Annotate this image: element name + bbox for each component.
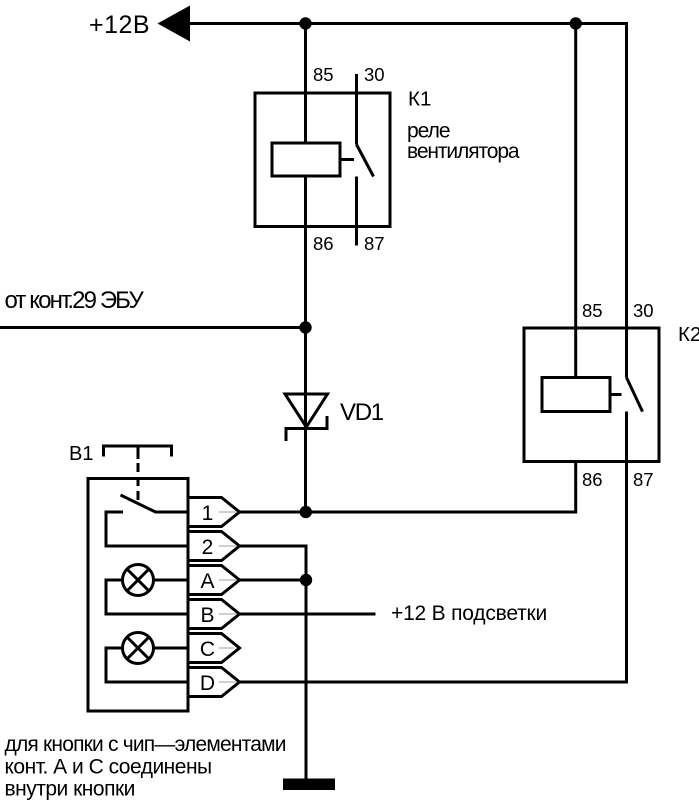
- wire rail to K2 pin 85 (coil top): [574, 24, 577, 378]
- lamp HL1 wire pin A: [154, 579, 189, 582]
- lamp HL1 cross: [127, 569, 149, 591]
- diode VD1 triangle: [285, 394, 328, 427]
- svg-text:от конт.29 ЭБУ: от конт.29 ЭБУ: [5, 287, 145, 314]
- wire pin A to node: [240, 579, 307, 582]
- svg-text:VD1: VD1: [340, 399, 384, 426]
- junction node 1: [300, 506, 312, 518]
- relay K1 coil: [272, 143, 340, 176]
- button B1 switch blade to pin 1: [121, 495, 189, 512]
- svg-text:86: 86: [313, 233, 334, 254]
- pin A ghost stub: [219, 579, 236, 581]
- svg-text:30: 30: [364, 64, 385, 85]
- pin 2 ghost stub: [219, 545, 236, 547]
- pin B ghost stub: [219, 613, 236, 615]
- +12V supply arrow: [158, 6, 191, 42]
- diode VD1 cathode bar (zener): [286, 416, 327, 441]
- lamp HL2 cross: [127, 637, 149, 659]
- wire pin D to K2 pin 87: [240, 412, 627, 683]
- relay K1 coil link: [340, 158, 354, 161]
- button B1 switch fixed contact to pin 2: [106, 512, 188, 546]
- wire rail to K1 pin 85: [304, 24, 307, 144]
- lamp HL1 circle: [123, 565, 154, 596]
- svg-text:внутри кнопки: внутри кнопки: [5, 778, 135, 800]
- button B1 actuator bracket: [104, 446, 172, 459]
- lamp HL2 wire pin C: [154, 647, 189, 650]
- svg-text:1: 1: [202, 502, 214, 525]
- svg-text:для кнопки с чип—элементами: для кнопки с чип—элементами: [5, 733, 286, 756]
- wire pin B backlight: [240, 613, 376, 616]
- wire from ECU contact 29: [0, 326, 306, 329]
- lamp HL2 circle: [123, 633, 154, 664]
- ground symbol: [283, 779, 335, 791]
- pin 1 ghost stub: [219, 511, 236, 513]
- svg-text:А: А: [200, 570, 214, 593]
- svg-text:85: 85: [313, 64, 334, 85]
- wire top +12V rail and drop to K2 pin 30: [189, 24, 627, 378]
- svg-text:С: С: [200, 638, 215, 661]
- svg-text:D: D: [200, 672, 215, 695]
- button B1 pin D connector: [188, 668, 240, 697]
- wire pin 1 to K2 pin 86: [240, 462, 576, 513]
- svg-text:30: 30: [633, 300, 654, 321]
- svg-text:86: 86: [582, 469, 603, 490]
- svg-text:87: 87: [633, 469, 654, 490]
- svg-text:вентилятора: вентилятора: [407, 140, 520, 163]
- lamp HL1 wire to pin B: [106, 580, 188, 614]
- svg-text:85: 85: [582, 300, 603, 321]
- pin D ghost stub: [219, 681, 236, 683]
- junction node A: [300, 574, 312, 586]
- svg-text:В1: В1: [69, 443, 93, 465]
- relay K2 coil link: [610, 393, 622, 396]
- wire K1 coil bottom pin 86 down through diode VD1 to node 1: [304, 176, 307, 512]
- junction node ECU wire: [299, 321, 311, 333]
- button B1 box: [88, 479, 188, 712]
- svg-text:2: 2: [202, 536, 214, 559]
- svg-text:конт. А и С соединены: конт. А и С соединены: [5, 756, 212, 779]
- button B1 pin B connector: [188, 600, 240, 629]
- svg-text:К1: К1: [408, 88, 431, 111]
- button B1 actuator dashed link: [137, 463, 140, 505]
- button B1 pin 2 connector: [188, 532, 240, 561]
- wire K1 pin 30 stub: [355, 74, 358, 145]
- relay K1 box: [255, 93, 390, 227]
- pin C ghost stub: [219, 647, 234, 649]
- relay K1 switch blade: [357, 145, 374, 177]
- svg-text:87: 87: [364, 233, 385, 254]
- relay K2 box: [524, 328, 659, 462]
- relay K2 switch blade: [627, 378, 643, 412]
- relay K2 coil: [542, 378, 610, 412]
- button B1 pin C connector: [188, 634, 240, 663]
- junction node rail-K1: [299, 17, 311, 29]
- svg-text:+12В: +12В: [89, 11, 150, 39]
- button B1 pin A connector: [188, 566, 240, 595]
- relay K1 pin 87 contact: [355, 177, 358, 246]
- svg-text:К2: К2: [678, 323, 699, 346]
- junction node rail-K2: [570, 17, 582, 29]
- svg-text:В: В: [200, 604, 214, 627]
- lamp HL2 wire to pin D: [106, 648, 188, 682]
- button B1 pin 1 connector: [188, 498, 240, 527]
- svg-text:+12 В подсветки: +12 В подсветки: [391, 602, 547, 625]
- wire pin 2 to ground: [240, 546, 307, 779]
